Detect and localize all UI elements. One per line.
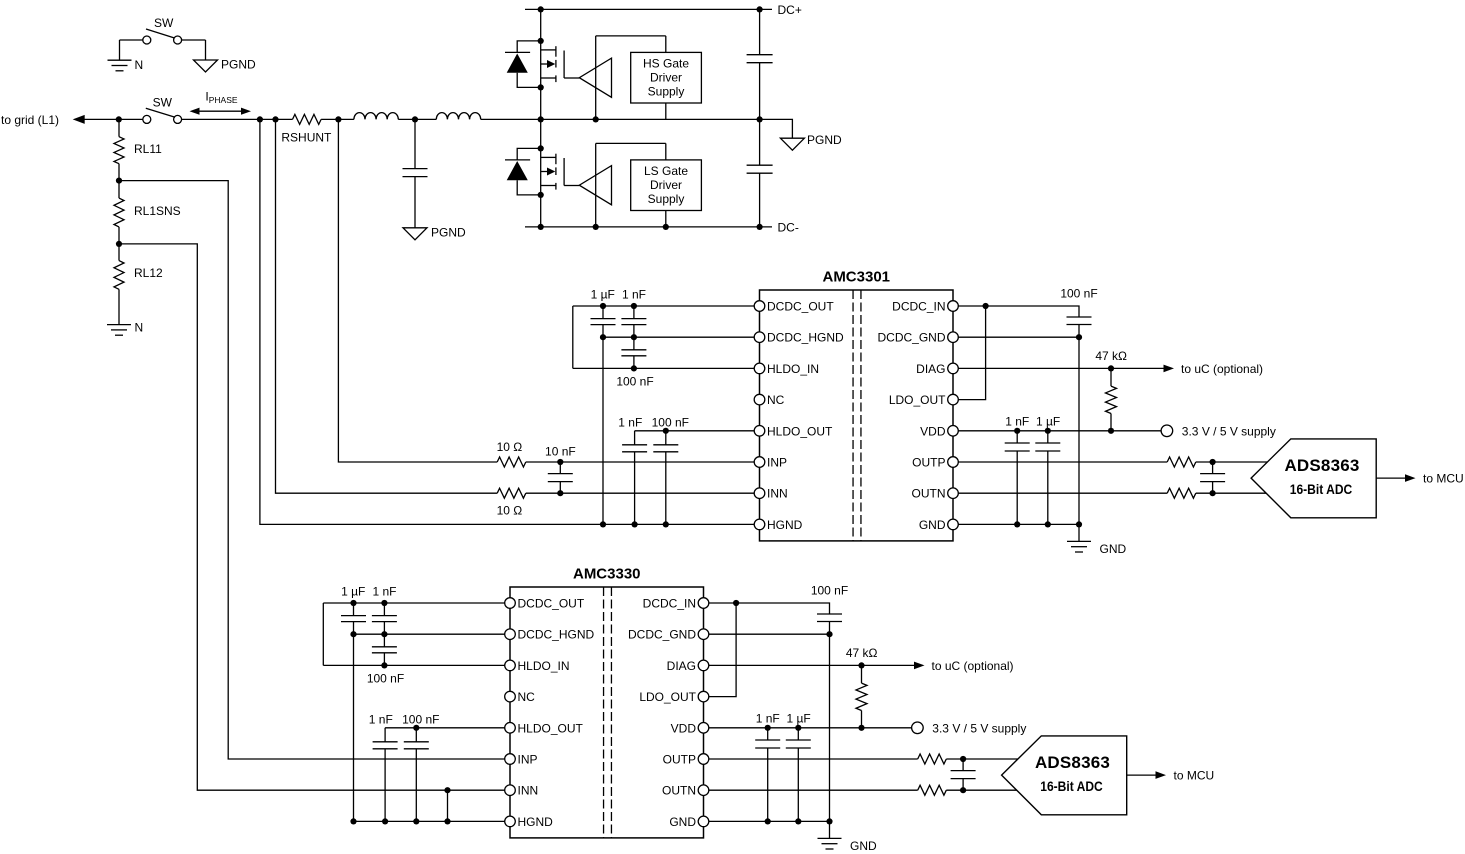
svg-text:DIAG: DIAG: [667, 659, 696, 673]
svg-text:NC: NC: [518, 690, 536, 704]
svg-text:1 µF: 1 µF: [591, 288, 615, 302]
svg-text:LDO_OUT: LDO_OUT: [639, 690, 696, 704]
svg-text:DCDC_IN: DCDC_IN: [892, 300, 945, 314]
svg-text:GND: GND: [850, 839, 877, 853]
svg-text:1 nF: 1 nF: [618, 416, 642, 430]
svg-text:RL12: RL12: [134, 266, 163, 280]
svg-text:DCDC_OUT: DCDC_OUT: [518, 597, 585, 611]
svg-text:HLDO_IN: HLDO_IN: [767, 362, 819, 376]
svg-text:DIAG: DIAG: [916, 362, 945, 376]
svg-text:DC+: DC+: [778, 3, 802, 17]
svg-text:10 Ω: 10 Ω: [497, 440, 523, 454]
svg-text:INP: INP: [518, 753, 538, 767]
svg-text:Supply: Supply: [648, 85, 685, 99]
svg-text:OUTP: OUTP: [912, 456, 945, 470]
svg-text:GND: GND: [919, 518, 946, 532]
svg-text:HGND: HGND: [518, 815, 554, 829]
svg-text:10 Ω: 10 Ω: [497, 504, 523, 518]
svg-text:16-Bit ADC: 16-Bit ADC: [1290, 481, 1353, 497]
svg-text:1 µF: 1 µF: [1036, 414, 1060, 428]
svg-text:HS Gate: HS Gate: [643, 57, 689, 71]
svg-text:DCDC_HGND: DCDC_HGND: [767, 331, 844, 345]
svg-text:INN: INN: [518, 784, 539, 798]
svg-text:DCDC_GND: DCDC_GND: [877, 331, 945, 345]
svg-text:PGND: PGND: [431, 226, 466, 240]
svg-text:100 nF: 100 nF: [402, 713, 439, 727]
svg-text:to uC (optional): to uC (optional): [932, 659, 1014, 673]
svg-text:VDD: VDD: [920, 424, 946, 438]
svg-text:LDO_OUT: LDO_OUT: [889, 393, 946, 407]
svg-text:1 nF: 1 nF: [1005, 414, 1029, 428]
svg-text:to uC (optional): to uC (optional): [1181, 362, 1263, 376]
svg-text:VDD: VDD: [671, 721, 697, 735]
svg-text:HGND: HGND: [767, 518, 803, 532]
svg-text:3.3 V / 5 V supply: 3.3 V / 5 V supply: [1182, 424, 1276, 438]
svg-text:Driver: Driver: [650, 178, 682, 192]
svg-text:DCDC_IN: DCDC_IN: [643, 597, 696, 611]
svg-text:GND: GND: [1100, 542, 1127, 556]
svg-text:PGND: PGND: [807, 133, 842, 147]
svg-text:1 nF: 1 nF: [756, 711, 780, 725]
svg-text:1 nF: 1 nF: [369, 713, 393, 727]
svg-text:Driver: Driver: [650, 71, 682, 85]
svg-text:3.3 V / 5 V supply: 3.3 V / 5 V supply: [932, 721, 1026, 735]
svg-text:1 µF: 1 µF: [786, 711, 810, 725]
svg-text:AMC3301: AMC3301: [822, 269, 890, 286]
svg-text:N: N: [135, 320, 144, 334]
svg-text:GND: GND: [669, 815, 696, 829]
svg-text:NC: NC: [767, 393, 785, 407]
svg-text:SW: SW: [153, 96, 173, 110]
svg-text:OUTN: OUTN: [662, 784, 696, 798]
svg-text:1 nF: 1 nF: [622, 288, 646, 302]
svg-text:1 µF: 1 µF: [341, 585, 365, 599]
svg-text:DC-: DC-: [778, 221, 799, 235]
svg-text:RSHUNT: RSHUNT: [281, 131, 332, 145]
svg-text:to grid (L1): to grid (L1): [1, 113, 59, 127]
svg-text:47 kΩ: 47 kΩ: [846, 646, 878, 660]
svg-text:RL11: RL11: [134, 142, 162, 156]
svg-text:LS Gate: LS Gate: [644, 164, 688, 178]
svg-text:INP: INP: [767, 456, 787, 470]
svg-text:AMC3330: AMC3330: [573, 566, 641, 583]
svg-text:HLDO_IN: HLDO_IN: [518, 659, 570, 673]
svg-text:Supply: Supply: [648, 192, 685, 206]
svg-text:RL1SNS: RL1SNS: [134, 204, 181, 218]
svg-text:10 nF: 10 nF: [545, 445, 576, 459]
svg-text:N: N: [135, 58, 144, 72]
svg-text:100 nF: 100 nF: [1060, 287, 1097, 301]
svg-text:16-Bit ADC: 16-Bit ADC: [1040, 778, 1103, 794]
svg-text:ADS8363: ADS8363: [1035, 753, 1110, 772]
svg-text:SW: SW: [154, 16, 174, 30]
svg-text:DCDC_GND: DCDC_GND: [628, 628, 696, 642]
svg-text:100 nF: 100 nF: [811, 584, 848, 598]
svg-text:PGND: PGND: [221, 58, 256, 72]
svg-text:1 nF: 1 nF: [372, 585, 396, 599]
svg-text:47 kΩ: 47 kΩ: [1095, 349, 1127, 363]
svg-text:OUTN: OUTN: [912, 487, 946, 501]
svg-text:INN: INN: [767, 487, 788, 501]
svg-text:to MCU: to MCU: [1423, 472, 1464, 486]
svg-text:ADS8363: ADS8363: [1284, 456, 1359, 475]
svg-text:HLDO_OUT: HLDO_OUT: [767, 424, 833, 438]
svg-text:DCDC_OUT: DCDC_OUT: [767, 300, 834, 314]
svg-text:to MCU: to MCU: [1174, 769, 1215, 783]
svg-text:DCDC_HGND: DCDC_HGND: [518, 628, 595, 642]
svg-text:100 nF: 100 nF: [652, 416, 689, 430]
svg-text:HLDO_OUT: HLDO_OUT: [518, 721, 584, 735]
svg-text:100 nF: 100 nF: [616, 375, 653, 389]
svg-text:100 nF: 100 nF: [367, 672, 404, 686]
svg-text:OUTP: OUTP: [663, 753, 696, 767]
